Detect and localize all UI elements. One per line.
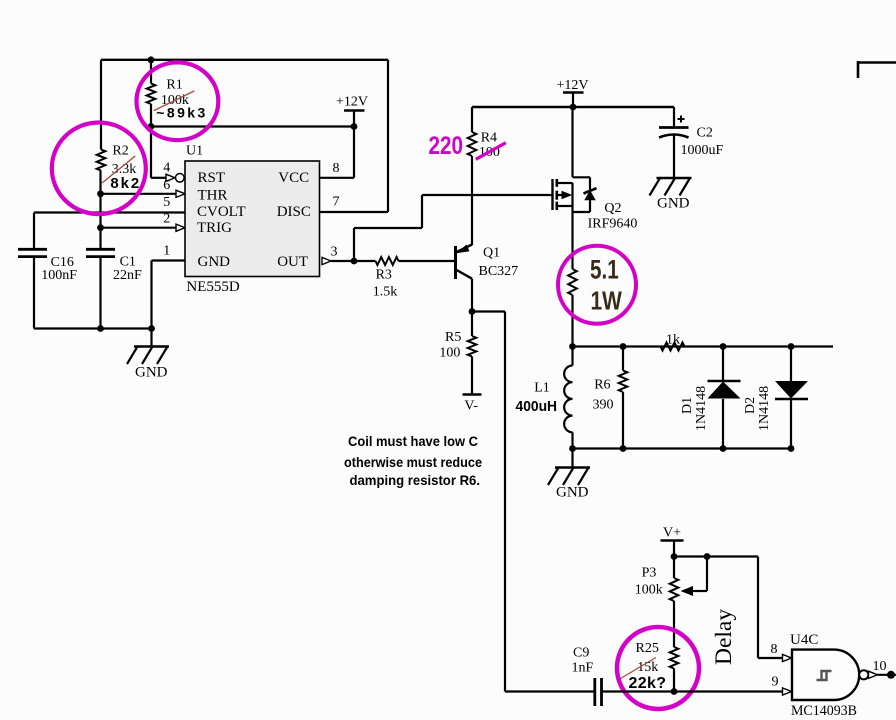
svg-text:390: 390 — [593, 397, 614, 412]
wire Q1 collector down — [471, 279, 473, 312]
svg-text:100: 100 — [439, 345, 460, 360]
svg-text:RST: RST — [198, 170, 226, 186]
P3 wiper — [706, 557, 708, 592]
svg-text:L1: L1 — [534, 381, 550, 396]
svg-text:1W: 1W — [591, 285, 623, 315]
wire source down — [571, 212, 573, 269]
node L1 top — [569, 343, 576, 350]
power V- — [463, 393, 482, 396]
resistor R2 — [97, 150, 106, 171]
inductor L1 — [564, 366, 572, 433]
svg-text:BC327: BC327 — [479, 264, 519, 279]
svg-text:2: 2 — [163, 212, 170, 227]
node wiper junction — [704, 553, 711, 560]
node R2/THR junction — [97, 190, 104, 197]
svg-text:100nF: 100nF — [41, 268, 77, 283]
svg-text:+12V: +12V — [557, 78, 589, 93]
strike over 3.3k — [102, 156, 135, 183]
svg-text:GND: GND — [198, 254, 231, 270]
wire junction to long drop — [472, 310, 505, 312]
diode D1 1N4148 — [722, 347, 724, 382]
wire V+ to pin8 drop — [674, 555, 758, 557]
transistor Q2 IRF9640 — [551, 179, 553, 210]
svg-text:GND: GND — [135, 365, 168, 381]
resistor R6 — [622, 347, 624, 371]
svg-text:3: 3 — [331, 245, 338, 260]
svg-text:GND: GND — [657, 196, 690, 212]
node R25 bottom junction — [671, 688, 678, 695]
svg-text:C9: C9 — [573, 646, 589, 661]
svg-text:NE555D: NE555D — [186, 279, 239, 295]
svg-text:~89k3: ~89k3 — [156, 105, 205, 121]
svg-text:DISC: DISC — [277, 204, 311, 220]
resistor 1k — [661, 343, 685, 351]
node V+ junction — [671, 553, 678, 560]
svg-text:V-: V- — [464, 399, 478, 414]
svg-text:D1: D1 — [680, 397, 695, 414]
resistor R4 — [471, 107, 473, 132]
svg-text:1N4148: 1N4148 — [757, 386, 772, 431]
svg-text:5.1: 5.1 — [590, 255, 619, 285]
svg-text:D2: D2 — [743, 397, 758, 414]
wire +12V rail right — [472, 106, 674, 108]
svg-text:1k: 1k — [666, 333, 680, 348]
svg-text:R5: R5 — [445, 330, 461, 345]
svg-text:P3: P3 — [642, 566, 657, 581]
wire R1 bottom to +12V node — [151, 125, 354, 127]
svg-text:1nF: 1nF — [572, 661, 594, 676]
node R1 top — [148, 56, 155, 63]
wire RST drop — [150, 127, 152, 178]
gate output bubble — [859, 670, 868, 679]
ground GND under 555 — [134, 345, 169, 347]
svg-text:GND: GND — [556, 485, 589, 501]
resistor R3 — [376, 257, 399, 265]
node OUT junction — [351, 258, 358, 265]
node +12V VCC junction — [351, 123, 358, 130]
svg-text:9: 9 — [772, 674, 779, 689]
svg-text:220: 220 — [429, 132, 464, 160]
svg-text:8: 8 — [771, 642, 778, 657]
resistor R1 — [150, 60, 152, 84]
svg-text:Coil must have low C: Coil must have low C — [348, 433, 478, 449]
wire THR pin6 — [101, 193, 177, 195]
pin arrow OUT — [322, 257, 331, 264]
svg-text:22k?: 22k? — [629, 675, 667, 692]
wire drain from +12V — [571, 107, 573, 177]
capacitor C9 — [505, 690, 594, 692]
wire GND pin1 — [152, 259, 186, 261]
plus sign of C2 — [678, 116, 685, 123]
svg-text:+12V: +12V — [336, 95, 368, 110]
svg-text:4: 4 — [163, 161, 170, 176]
node GND rail junction — [148, 325, 155, 332]
pin arrow gate out — [869, 671, 878, 678]
wire TRIG pin2 — [101, 227, 177, 229]
pin arrow gate in 8 — [783, 654, 792, 661]
circle annotation around R1 — [137, 62, 219, 140]
transistor Q1 BC327 — [454, 246, 457, 279]
svg-text:R3: R3 — [376, 268, 392, 283]
wire C9 to pin9 — [602, 690, 784, 692]
node TRIG junction — [97, 224, 104, 231]
svg-text:6: 6 — [163, 178, 170, 193]
svg-text:CVOLT: CVOLT — [197, 204, 246, 220]
wire VCC pin8 — [353, 127, 355, 178]
wire R2 bottom to C1 — [99, 171, 101, 251]
node +12V junction — [570, 104, 577, 111]
wire CVOLT pin5 from C16 — [34, 211, 185, 213]
svg-text:100k: 100k — [635, 583, 663, 598]
svg-text:R25: R25 — [636, 641, 659, 656]
circle annotation 5.1 1W — [558, 246, 636, 324]
wire coil rail bottom — [573, 447, 792, 449]
capacitor C16 — [33, 213, 35, 250]
capacitor C1 — [86, 248, 115, 251]
wire top rail DISC net — [101, 59, 388, 61]
power +12V left — [344, 109, 365, 112]
svg-text:IRF9640: IRF9640 — [588, 217, 638, 232]
resistor 5R1 — [568, 269, 577, 295]
svg-text:8k2: 8k2 — [110, 175, 139, 192]
gate U4C MC14093B — [792, 650, 859, 700]
wire gate drive Z-path — [353, 228, 355, 261]
svg-text:Q1: Q1 — [483, 246, 500, 261]
svg-text:U1: U1 — [186, 144, 203, 159]
circle annotation around R25 — [617, 627, 699, 709]
svg-text:damping resistor R6.: damping resistor R6. — [350, 472, 481, 488]
svg-text:V+: V+ — [663, 526, 681, 541]
diode D2 1N4148 — [790, 347, 792, 382]
svg-text:7: 7 — [333, 195, 340, 210]
wire coil rail top — [573, 345, 834, 347]
wire output 10 — [878, 674, 896, 676]
svg-text:R1: R1 — [166, 77, 182, 92]
capacitor C2 — [673, 107, 675, 127]
wire DISC pin7 — [387, 60, 389, 212]
svg-text:TRIG: TRIG — [197, 220, 232, 236]
ground GND under C2 — [657, 177, 692, 179]
svg-text:5: 5 — [163, 195, 170, 210]
svg-text:C1: C1 — [120, 254, 136, 269]
power +12V right — [563, 91, 584, 94]
potentiometer P3 — [673, 557, 675, 579]
svg-text:400uH: 400uH — [516, 398, 558, 415]
circle annotation around R2 — [52, 123, 146, 215]
power V+ — [661, 539, 684, 542]
body diode of Q2 — [584, 190, 596, 200]
strike over 100k — [154, 91, 195, 111]
pin arrow RST — [166, 174, 175, 181]
node Q1 collector junction — [469, 308, 476, 315]
IC U1 NE555D body — [185, 161, 320, 277]
svg-text:1N4148: 1N4148 — [694, 386, 709, 431]
wire OUT to R3 — [331, 260, 376, 262]
wire pin8 — [757, 557, 759, 659]
schmitt glyph — [817, 671, 832, 680]
svg-text:R2: R2 — [112, 144, 128, 159]
pin arrow gate in 9 — [783, 688, 792, 695]
ground GND under L1 — [571, 449, 573, 468]
svg-text:C2: C2 — [697, 126, 713, 141]
svg-text:OUT: OUT — [277, 254, 308, 270]
svg-text:1: 1 — [163, 244, 170, 259]
strike over 15k — [621, 658, 657, 679]
svg-text:R6: R6 — [594, 377, 610, 392]
svg-text:Q2: Q2 — [604, 201, 621, 216]
svg-text:1000uF: 1000uF — [681, 143, 724, 158]
wire left vertical to R2 — [100, 60, 102, 150]
svg-text:THR: THR — [198, 187, 228, 203]
resistor R5 — [471, 312, 473, 337]
svg-text:U4C: U4C — [790, 632, 818, 648]
pin arrow THR — [176, 190, 185, 197]
RST bubble — [176, 174, 185, 183]
svg-text:Delay: Delay — [711, 609, 737, 665]
resistor R25 — [670, 647, 679, 669]
svg-text:otherwise must reduce: otherwise must reduce — [344, 454, 482, 470]
svg-text:22nF: 22nF — [113, 268, 142, 283]
svg-text:VCC: VCC — [278, 170, 309, 186]
wire partial top-right — [858, 61, 896, 64]
node R1 bottom — [148, 123, 155, 130]
pin arrow TRIG — [176, 224, 185, 231]
node C1 bottom junction — [97, 325, 104, 332]
svg-text:1.5k: 1.5k — [373, 284, 398, 299]
strike over 100 magenta — [476, 143, 506, 160]
svg-text:R4: R4 — [481, 131, 497, 146]
wire bottom rail left — [34, 327, 152, 329]
svg-text:8: 8 — [333, 161, 340, 176]
svg-text:MC14093B: MC14093B — [791, 703, 857, 719]
svg-text:10: 10 — [873, 659, 887, 674]
wire R3 to Q1 base — [399, 260, 455, 262]
